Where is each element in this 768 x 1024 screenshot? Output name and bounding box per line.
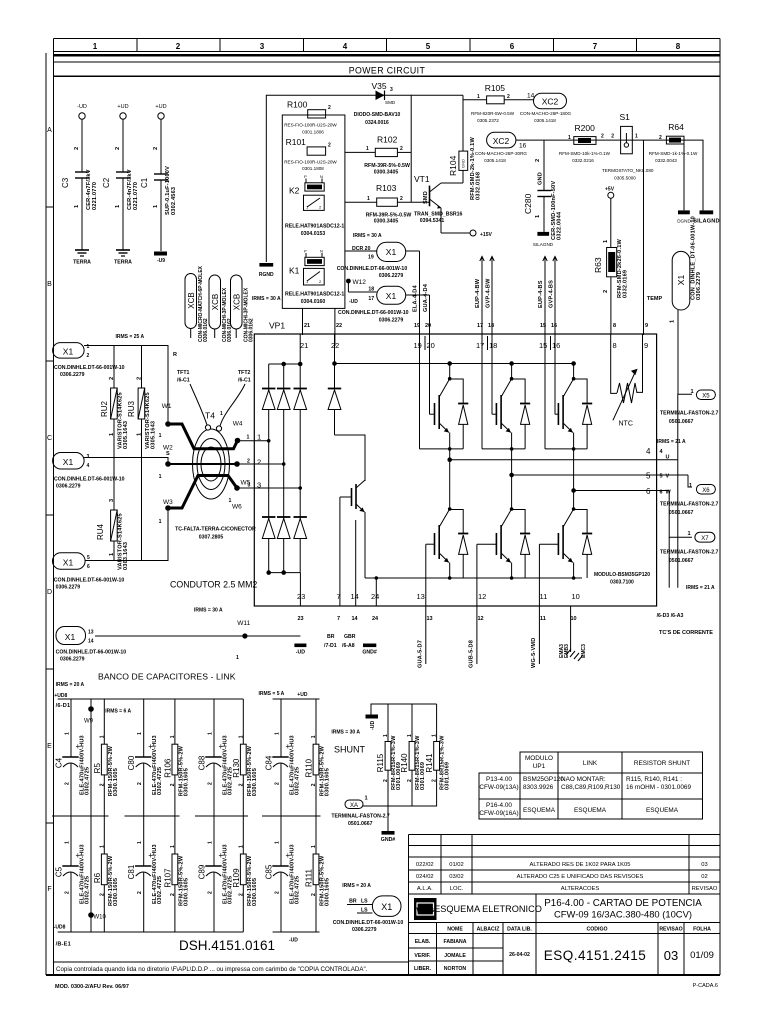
svg-text:RES-FIO-100R-U2S-20W: RES-FIO-100R-U2S-20W xyxy=(284,123,337,128)
diode D4 brake xyxy=(328,364,341,436)
svg-text:LINK: LINK xyxy=(583,760,598,767)
connector X1 right vertical xyxy=(670,216,703,394)
svg-text:13: 13 xyxy=(417,592,425,601)
svg-text:X1: X1 xyxy=(65,632,76,642)
svg-text:XC2: XC2 xyxy=(542,97,559,107)
svg-text:2: 2 xyxy=(208,891,214,894)
capacitor C280 xyxy=(523,140,563,247)
ground RGND xyxy=(259,263,273,267)
svg-text:P13-4.00: P13-4.00 xyxy=(486,776,512,783)
svg-text:CON-MACHO-26P-30RG: CON-MACHO-26P-30RG xyxy=(475,151,527,156)
svg-text:1: 1 xyxy=(688,531,691,537)
node W5 xyxy=(234,459,284,487)
svg-text:R141: R141 xyxy=(425,753,434,773)
rectifier leg 3 xyxy=(299,364,301,573)
svg-text:EUP-4-BW: EUP-4-BW xyxy=(475,278,481,308)
svg-text:IRMS = 30 A: IRMS = 30 A xyxy=(194,608,223,614)
svg-text:2: 2 xyxy=(601,134,604,140)
svg-text:RELE.HAT901ASDC12-1: RELE.HAT901ASDC12-1 xyxy=(285,292,344,298)
svg-text:1: 1 xyxy=(208,732,214,735)
wire top bus xyxy=(266,95,411,262)
capacitor C80 xyxy=(135,699,151,816)
svg-text:3: 3 xyxy=(109,499,115,502)
svg-text:1: 1 xyxy=(275,732,281,735)
svg-text:GBR: GBR xyxy=(344,634,356,640)
transistor brake chopper xyxy=(335,435,379,606)
svg-text:18: 18 xyxy=(488,323,494,329)
svg-text:16 mOHM - 0301.0069: 16 mOHM - 0301.0069 xyxy=(626,784,691,791)
svg-text:03: 03 xyxy=(701,862,707,868)
capacitor C85 xyxy=(272,816,288,932)
svg-text:C88,C89,R109,R130: C88,C89,R109,R130 xyxy=(561,784,621,791)
svg-text:C85: C85 xyxy=(265,864,274,879)
svg-text:GVP-4-BW: GVP-4-BW xyxy=(486,278,492,308)
svg-text:RFM-39R-5%-0.5W: RFM-39R-5%-0.5W xyxy=(364,163,410,169)
resistor R141 xyxy=(434,742,440,807)
rectifier anode bus xyxy=(267,571,300,575)
svg-text:0221.0770: 0221.0770 xyxy=(92,182,98,210)
svg-text:2: 2 xyxy=(275,782,281,785)
svg-text:C80: C80 xyxy=(127,755,136,770)
svg-text:0300.1605: 0300.1605 xyxy=(252,878,258,906)
capacitor C88 xyxy=(205,699,221,816)
svg-text:0332.0216: 0332.0216 xyxy=(572,158,594,163)
diode freewheel upper 3 xyxy=(545,379,592,451)
svg-text:IRMS = 20 A: IRMS = 20 A xyxy=(56,682,85,688)
svg-text:10: 10 xyxy=(571,616,577,622)
winding W3 (thick) xyxy=(159,476,237,526)
wire temp sense xyxy=(643,140,645,335)
svg-text:TERMINAL-FASTON-2.7: TERMINAL-FASTON-2.7 xyxy=(331,814,390,820)
pin labels bottom outside xyxy=(298,616,577,622)
svg-text:Copia controlada quando lida n: Copia controlada quando lida no diretori… xyxy=(56,966,368,973)
svg-text:0300.1605: 0300.1605 xyxy=(325,878,331,906)
varistor RU3 xyxy=(127,346,157,561)
svg-text:3: 3 xyxy=(390,87,393,93)
connector X1 input R xyxy=(53,343,125,378)
svg-text:XCB: XCB xyxy=(187,292,196,308)
node +5V xyxy=(605,187,615,248)
svg-text:C84: C84 xyxy=(265,755,274,770)
transistor IGBT upper phase 2 xyxy=(482,335,513,449)
ground -UD bar (shunt) xyxy=(366,715,379,719)
node +UD terminal xyxy=(117,104,128,119)
svg-text:K2: K2 xyxy=(289,186,300,196)
diode D2 bottom xyxy=(277,517,290,539)
svg-text:V: V xyxy=(666,474,670,480)
svg-text:F: F xyxy=(47,886,51,893)
svg-text:SILAGND: SILAGND xyxy=(693,219,720,225)
WEG logo xyxy=(414,898,437,920)
node W4 xyxy=(233,421,269,444)
svg-text:IRMS = 21 A: IRMS = 21 A xyxy=(657,439,686,445)
svg-text:W2: W2 xyxy=(163,445,173,452)
svg-text:W: W xyxy=(666,490,672,496)
svg-text:+UD: +UD xyxy=(155,104,166,110)
relay K2 xyxy=(285,174,344,237)
svg-text:15: 15 xyxy=(540,323,546,329)
svg-text:RU4: RU4 xyxy=(96,523,105,540)
svg-text:9: 9 xyxy=(644,341,648,350)
svg-text:6: 6 xyxy=(646,487,651,496)
svg-text:3: 3 xyxy=(260,42,265,51)
svg-text:R6: R6 xyxy=(93,872,102,883)
svg-text:SILAGND: SILAGND xyxy=(533,242,554,247)
capacitor C81 xyxy=(135,816,151,932)
svg-text:BANCO DE CAPACITORES - LINK: BANCO DE CAPACITORES - LINK xyxy=(98,672,236,682)
gate wires 17/18 xyxy=(482,256,492,335)
svg-text:EMB3: EMB3 xyxy=(564,644,570,658)
svg-text:CONDUTOR 2.5 MM2: CONDUTOR 2.5 MM2 xyxy=(170,580,257,590)
output bus V xyxy=(510,473,692,487)
svg-text:0302.4725: 0302.4725 xyxy=(85,767,91,795)
svg-text:2: 2 xyxy=(170,783,176,786)
svg-text:CODIGO: CODIGO xyxy=(586,927,607,933)
svg-text:12: 12 xyxy=(478,592,486,601)
svg-text:IRMS = 30 A: IRMS = 30 A xyxy=(353,233,382,239)
svg-text:2: 2 xyxy=(208,782,214,785)
svg-text:0332.0168: 0332.0168 xyxy=(476,172,482,200)
svg-text:8: 8 xyxy=(613,323,616,329)
resistor R130 xyxy=(240,699,246,816)
gate wires 19/20 xyxy=(406,251,430,335)
svg-text:A: A xyxy=(47,127,52,134)
svg-text:SMD: SMD xyxy=(423,191,429,204)
svg-text:MOD. 0300-2/AFU Rev. 06/97: MOD. 0300-2/AFU Rev. 06/97 xyxy=(55,984,129,990)
svg-text:0303.7100: 0303.7100 xyxy=(610,580,634,586)
wire phase T xyxy=(85,511,168,561)
svg-text:C4: C4 xyxy=(55,757,64,768)
svg-text:0306.2279: 0306.2279 xyxy=(60,372,85,378)
svg-text:4: 4 xyxy=(87,463,90,469)
svg-text:TC'S DE CORRENTE: TC'S DE CORRENTE xyxy=(659,630,713,636)
svg-text:20: 20 xyxy=(427,341,435,350)
svg-text:P: P xyxy=(304,174,307,179)
svg-text:NAO MONTAR:: NAO MONTAR: xyxy=(561,776,606,783)
svg-text:R107: R107 xyxy=(163,868,172,888)
svg-text:0302.4563: 0302.4563 xyxy=(171,187,177,215)
svg-text:5: 5 xyxy=(660,474,663,480)
wire phase S xyxy=(84,458,168,465)
svg-text:DSH.4151.0161: DSH.4151.0161 xyxy=(179,938,275,953)
capacitor C3 xyxy=(75,119,89,250)
node W11 xyxy=(236,620,251,661)
svg-text:0306.0162: 0306.0162 xyxy=(203,318,209,342)
column numbers xyxy=(93,42,681,51)
svg-text:DATA LIB.: DATA LIB. xyxy=(507,927,532,933)
svg-text:0300.1605: 0300.1605 xyxy=(183,768,189,796)
svg-text:0332.0169: 0332.0169 xyxy=(623,270,629,298)
svg-text:18: 18 xyxy=(489,341,497,350)
resistor R106 xyxy=(172,699,178,816)
svg-text:C2: C2 xyxy=(102,177,111,188)
resistor R107 xyxy=(172,816,178,932)
svg-text:0322.0044: 0322.0044 xyxy=(557,211,563,240)
svg-text:0302.4725: 0302.4725 xyxy=(295,876,301,904)
svg-text:12: 12 xyxy=(478,616,484,622)
svg-text:0501.0667: 0501.0667 xyxy=(669,510,694,516)
transistor IGBT lower phase 3 xyxy=(539,449,575,606)
svg-text:-UD: -UD xyxy=(349,299,358,305)
diode freewheel lower 3 xyxy=(572,510,592,580)
svg-text:R105: R105 xyxy=(485,83,506,93)
wire mid rail C88/R130 xyxy=(195,815,248,817)
svg-text:T4: T4 xyxy=(205,411,215,421)
svg-text:R115: R115 xyxy=(376,753,385,772)
svg-text:IRMS = 25 A: IRMS = 25 A xyxy=(116,334,145,340)
diode freewheel upper 2 xyxy=(482,379,530,451)
svg-text:CON.DINHLE.DT-66-001W-10: CON.DINHLE.DT-66-001W-10 xyxy=(337,266,408,272)
svg-text:1: 1 xyxy=(99,845,105,848)
connector X1 pins13/14 xyxy=(56,627,127,663)
svg-text:A.L.A.: A.L.A. xyxy=(417,886,433,892)
node -U9 bar xyxy=(154,252,167,256)
svg-text:1: 1 xyxy=(159,519,162,525)
svg-text:D: D xyxy=(47,589,52,596)
svg-text:1: 1 xyxy=(65,732,71,735)
resistor R109 xyxy=(240,816,246,932)
ground DGND xyxy=(677,144,691,224)
svg-text:7: 7 xyxy=(337,616,340,622)
svg-text:X1: X1 xyxy=(63,558,74,568)
svg-text:R200: R200 xyxy=(575,123,596,133)
svg-text:2: 2 xyxy=(99,893,105,896)
pin labels top outside xyxy=(414,323,648,329)
ground GND# xyxy=(363,644,376,648)
svg-text:P: P xyxy=(304,249,307,254)
svg-text:0301.1806: 0301.1806 xyxy=(302,130,324,135)
svg-text:TC-FALTA-TERRA-C/CONECTOR: TC-FALTA-TERRA-C/CONECTOR xyxy=(175,527,256,533)
svg-text:V35: V35 xyxy=(371,81,386,91)
svg-text:19: 19 xyxy=(414,341,422,350)
svg-text:23: 23 xyxy=(298,616,304,622)
svg-text:1: 1 xyxy=(93,42,98,51)
svg-text:W6: W6 xyxy=(232,504,242,511)
svg-text:W12: W12 xyxy=(353,279,367,286)
svg-text:2: 2 xyxy=(432,779,438,782)
svg-text:4: 4 xyxy=(343,42,348,51)
diode D1 top xyxy=(262,389,275,410)
svg-text:6: 6 xyxy=(660,490,663,496)
svg-text:ELAB.: ELAB. xyxy=(415,939,431,945)
svg-text:GND#: GND# xyxy=(381,837,396,843)
connector XCB 1 xyxy=(185,274,197,339)
svg-text:X6: X6 xyxy=(702,488,710,494)
svg-text:024/02: 024/02 xyxy=(416,874,434,880)
svg-text:1: 1 xyxy=(275,841,281,844)
svg-text:1: 1 xyxy=(407,734,413,737)
gate wires 15/16 xyxy=(545,256,555,335)
wire phase R xyxy=(84,346,168,423)
svg-text:SHUNT: SHUNT xyxy=(334,745,366,755)
svg-text:-UD: -UD xyxy=(296,650,305,656)
svg-text:BR: BR xyxy=(349,899,357,905)
svg-text:MODULO-BSM35GP120: MODULO-BSM35GP120 xyxy=(594,572,650,578)
terminal X5 xyxy=(660,389,719,425)
wire W11 -UD link xyxy=(95,635,300,637)
thermistor NTC xyxy=(611,334,643,420)
svg-text:2: 2 xyxy=(99,783,105,786)
svg-text:UP1: UP1 xyxy=(533,763,546,770)
svg-text:0332.0043: 0332.0043 xyxy=(655,158,677,163)
svg-text:1: 1 xyxy=(670,320,676,323)
ground SILAGND xyxy=(693,210,720,224)
svg-text:0300.3405: 0300.3405 xyxy=(374,219,399,225)
svg-text:1: 1 xyxy=(137,841,143,844)
svg-text:2: 2 xyxy=(109,377,115,380)
svg-text:8: 8 xyxy=(613,341,617,350)
svg-text:CON.DINHLE.DT-66-001W-10: CON.DINHLE.DT-66-001W-10 xyxy=(54,578,125,584)
wire shunt bottom bus xyxy=(363,805,437,807)
svg-text:TFT1: TFT1 xyxy=(177,370,190,376)
svg-text:GUB-5-D8: GUB-5-D8 xyxy=(469,640,475,668)
svg-text:VERIF.: VERIF. xyxy=(414,953,431,959)
svg-text:1: 1 xyxy=(170,845,176,848)
svg-text:-UD: -UD xyxy=(289,938,298,944)
svg-text:R63: R63 xyxy=(593,257,603,273)
svg-text:R106: R106 xyxy=(163,758,172,778)
svg-text:C1: C1 xyxy=(140,177,149,188)
diode freewheel upper 1 xyxy=(420,379,469,451)
svg-text:C5: C5 xyxy=(55,866,64,877)
diode V35 xyxy=(354,81,401,126)
resistor R5 xyxy=(101,699,107,816)
svg-text:RFM-SMD-10k-1%-0.1W: RFM-SMD-10k-1%-0.1W xyxy=(559,151,611,156)
connector X1 (relay out 2) xyxy=(338,281,409,324)
svg-text:1: 1 xyxy=(115,205,121,208)
capacitor C84 xyxy=(272,699,288,816)
svg-text:8303.9926: 8303.9926 xyxy=(523,784,554,791)
svg-text:6: 6 xyxy=(510,42,515,51)
current sensor TFT2 xyxy=(220,370,251,426)
svg-text:1: 1 xyxy=(311,735,317,738)
svg-text:LS: LS xyxy=(361,899,368,905)
svg-text:R104: R104 xyxy=(448,155,458,176)
svg-text:CON-MACHO-26P-180G: CON-MACHO-26P-180G xyxy=(520,111,572,116)
svg-text:NORTON: NORTON xyxy=(444,966,467,972)
svg-text:1: 1 xyxy=(247,435,250,441)
svg-text:1: 1 xyxy=(689,483,692,489)
column ticks xyxy=(137,39,637,52)
svg-text:23: 23 xyxy=(297,592,305,601)
svg-text:7: 7 xyxy=(337,592,341,601)
TC sense wires xyxy=(669,460,678,588)
svg-text:2: 2 xyxy=(87,353,90,359)
wires below module xyxy=(426,606,583,664)
svg-text:GND: GND xyxy=(611,261,615,270)
svg-text:7: 7 xyxy=(593,42,598,51)
svg-text:RFM-820R-5W-0.5W: RFM-820R-5W-0.5W xyxy=(471,111,515,116)
svg-text:10: 10 xyxy=(572,592,580,601)
transistor IGBT upper phase 1 xyxy=(420,335,452,449)
svg-text:17: 17 xyxy=(476,341,484,350)
wire shunt top bus xyxy=(371,704,437,742)
svg-text:2: 2 xyxy=(65,891,71,894)
svg-text:1: 1 xyxy=(366,146,369,152)
svg-text:R110: R110 xyxy=(305,758,314,777)
connector XCB 2 xyxy=(209,275,221,338)
svg-text:VT1: VT1 xyxy=(414,174,430,184)
svg-text:ALTERADO C25 E UNIFICADO DAS R: ALTERADO C25 E UNIFICADO DAS REVISOES xyxy=(517,874,644,880)
resistor R110 xyxy=(313,699,319,816)
pin labels 1 2 3 xyxy=(257,433,261,490)
svg-text:1: 1 xyxy=(311,845,317,848)
svg-text:XCB: XCB xyxy=(211,294,220,310)
svg-text:-U9: -U9 xyxy=(157,258,165,264)
svg-text:24: 24 xyxy=(372,616,379,622)
svg-text:2: 2 xyxy=(74,147,80,150)
svg-text:1: 1 xyxy=(383,734,389,737)
svg-text:GND: GND xyxy=(538,172,544,185)
output bus W xyxy=(572,489,692,538)
svg-text:21: 21 xyxy=(304,323,310,329)
svg-text:01/02: 01/02 xyxy=(449,862,464,868)
svg-text:9: 9 xyxy=(645,323,648,329)
wire to pin 21 xyxy=(302,308,304,335)
svg-text:FABIANA: FABIANA xyxy=(443,939,466,945)
svg-text:R140: R140 xyxy=(400,753,409,773)
svg-text:POWER CIRCUIT: POWER CIRCUIT xyxy=(349,65,426,75)
collector bus xyxy=(333,362,576,366)
svg-text:1: 1 xyxy=(153,205,159,208)
capacitor C2 xyxy=(116,119,130,250)
svg-text:03/02: 03/02 xyxy=(449,874,464,880)
wire bank bottom bus xyxy=(58,931,320,933)
svg-text:1: 1 xyxy=(635,134,638,140)
transformer T4 xyxy=(193,411,230,500)
svg-text:0305.1643: 0305.1643 xyxy=(123,421,129,449)
svg-text:WG-5-VMD: WG-5-VMD xyxy=(531,638,537,669)
svg-text:W1: W1 xyxy=(162,403,172,410)
svg-text:2: 2 xyxy=(535,159,541,162)
svg-text:TEMP: TEMP xyxy=(647,296,663,302)
wire pin21 xyxy=(299,334,301,364)
svg-text:0307.2805: 0307.2805 xyxy=(199,535,224,541)
svg-text:R5: R5 xyxy=(93,763,102,774)
svg-text:X1: X1 xyxy=(381,902,392,912)
svg-text:21: 21 xyxy=(300,341,308,350)
svg-text:XCB: XCB xyxy=(232,294,241,310)
svg-text:WEG: WEG xyxy=(416,906,434,915)
svg-text:1: 1 xyxy=(236,655,239,661)
svg-text:IRMS = 20 A: IRMS = 20 A xyxy=(342,883,371,889)
svg-text:R103: R103 xyxy=(376,183,397,193)
svg-text:P-CADA.6: P-CADA.6 xyxy=(693,983,718,989)
gate wire arrow tips xyxy=(480,257,557,262)
svg-text:C88: C88 xyxy=(198,755,207,770)
svg-text:CFW-09(16A): CFW-09(16A) xyxy=(479,810,518,817)
svg-text:VP1: VP1 xyxy=(269,321,285,331)
ground GND# (shunt) xyxy=(387,806,389,831)
svg-text:EUP-4-BS: EUP-4-BS xyxy=(538,280,544,308)
svg-text:14: 14 xyxy=(352,616,359,622)
svg-text:0302.4725: 0302.4725 xyxy=(157,876,163,904)
svg-text:19: 19 xyxy=(414,323,420,329)
connector X1 input S xyxy=(53,453,125,490)
svg-text:/6-D3 /6-A3: /6-D3 /6-A3 xyxy=(657,613,684,619)
svg-text:W4: W4 xyxy=(233,421,243,428)
svg-text:2: 2 xyxy=(383,779,389,782)
svg-text:2: 2 xyxy=(257,458,261,467)
svg-text:W9: W9 xyxy=(84,719,94,725)
svg-text:2: 2 xyxy=(115,147,121,150)
svg-text:2: 2 xyxy=(311,783,317,786)
svg-text:1: 1 xyxy=(65,841,71,844)
svg-text:+15V: +15V xyxy=(480,232,492,238)
svg-text:-UD: -UD xyxy=(370,721,376,730)
svg-text:JOMALE: JOMALE xyxy=(444,953,466,959)
svg-text:0306.2279: 0306.2279 xyxy=(60,657,85,663)
